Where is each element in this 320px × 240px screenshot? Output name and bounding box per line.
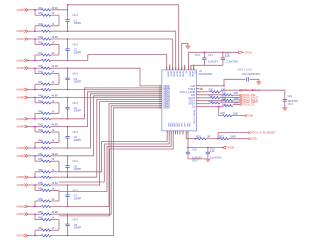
svg-text:R49: R49 [38, 140, 43, 143]
svg-text:R45: R45 [38, 110, 43, 113]
svg-text:R53: R53 [38, 169, 43, 172]
svg-text:9: 9 [172, 67, 173, 69]
svg-text:R60: R60 [38, 217, 43, 220]
svg-text:100PF: 100PF [74, 21, 82, 25]
svg-text:1K: 1K [51, 227, 54, 230]
svg-text:1K: 1K [51, 169, 54, 172]
svg-text:9: 9 [184, 67, 185, 69]
svg-text:GND: GND [171, 123, 173, 128]
svg-text:1K: 1K [51, 198, 54, 201]
svg-text:0603: 0603 [72, 72, 78, 76]
svg-text:AIN1P: AIN1P [16, 37, 24, 41]
svg-text:0603 0.22uF: 0603 0.22uF [237, 68, 252, 72]
svg-text:100PF: 100PF [74, 138, 82, 142]
svg-text:AIN7P: AIN7P [176, 71, 179, 77]
svg-text:R40: R40 [38, 71, 43, 74]
svg-text:49.9R: 49.9R [51, 211, 58, 214]
svg-text:R27: R27 [221, 112, 226, 115]
svg-text:1K: 1K [51, 140, 54, 143]
svg-text:AIN7P: AIN7P [16, 212, 24, 216]
svg-text:100PF: 100PF [74, 196, 82, 200]
svg-text:1K: 1K [51, 217, 54, 220]
svg-text:0603: 0603 [72, 218, 78, 222]
svg-text:R31: R31 [38, 7, 43, 10]
svg-text:GND: GND [173, 123, 175, 128]
svg-text:9: 9 [175, 67, 176, 69]
svg-text:100PF: 100PF [74, 109, 82, 113]
svg-text:R35: R35 [38, 36, 43, 39]
svg-text:1K: 1K [51, 187, 54, 190]
svg-text:GND: GND [251, 137, 257, 141]
svg-text:49.9R: 49.9R [51, 36, 58, 39]
svg-text:14: 14 [159, 106, 161, 108]
svg-text:AIN5N: AIN5N [16, 175, 24, 179]
svg-text:R52: R52 [38, 158, 43, 161]
svg-text:FPGA_CLK_IN: FPGA_CLK_IN [243, 88, 260, 92]
svg-text:9: 9 [193, 67, 194, 69]
svg-text:AIN5P: AIN5P [16, 154, 24, 158]
svg-text:AIN7N: AIN7N [16, 234, 24, 238]
svg-text:R61: R61 [38, 227, 43, 230]
svg-text:GND: GND [178, 123, 180, 128]
svg-text:49.9R: 49.9R [51, 153, 58, 156]
svg-text:R57: R57 [38, 198, 43, 201]
svg-text:R23: R23 [209, 95, 214, 98]
svg-text:9: 9 [169, 67, 170, 69]
svg-text:1K: 1K [51, 110, 54, 113]
svg-text:9: 9 [181, 67, 182, 69]
svg-text:GND: GND [180, 123, 182, 128]
svg-text:GND: GND [183, 123, 185, 128]
svg-text:0603: 0603 [72, 159, 78, 163]
svg-text:R43: R43 [38, 94, 43, 97]
svg-text:0603: 0603 [72, 42, 78, 46]
svg-text:1K: 1K [51, 129, 54, 132]
svg-text:R48: R48 [38, 129, 43, 132]
svg-text:33R: 33R [221, 99, 226, 102]
svg-text:R37: R37 [219, 134, 224, 138]
svg-text:100PF: 100PF [74, 80, 82, 84]
svg-text:GND: GND [188, 123, 190, 128]
svg-text:9: 9 [166, 67, 167, 69]
svg-text:R36: R36 [38, 41, 43, 44]
svg-text:R37: R37 [38, 52, 43, 55]
svg-text:33R: 33R [234, 97, 239, 100]
svg-text:1K: 1K [51, 23, 54, 26]
svg-text:AGND: AGND [182, 71, 185, 77]
svg-text:1K: 1K [51, 71, 54, 74]
svg-text:AIN4P: AIN4P [16, 125, 24, 129]
svg-text:R55: R55 [38, 182, 43, 185]
svg-text:R39: R39 [38, 65, 43, 68]
svg-text:0.1uF/25V: 0.1uF/25V [226, 59, 238, 63]
svg-text:0.1uF/25V: 0.1uF/25V [210, 155, 222, 159]
svg-text:0R: 0R [207, 134, 210, 138]
svg-text:CS: CS [192, 106, 196, 109]
svg-text:0603: 0603 [288, 103, 294, 106]
svg-text:AIN0P: AIN0P [16, 8, 24, 12]
svg-text:1K: 1K [51, 41, 54, 44]
svg-text:FPGA_SYNC/RESET: FPGA_SYNC/RESET [251, 131, 276, 135]
svg-text:R26: R26 [222, 104, 227, 107]
svg-text:C16: C16 [192, 148, 197, 152]
svg-text:GND: GND [169, 123, 171, 128]
svg-text:R25: R25 [209, 101, 214, 104]
svg-text:100R: 100R [230, 134, 236, 138]
svg-text:1K: 1K [51, 158, 54, 161]
svg-text:100PF: 100PF [74, 167, 82, 171]
svg-text:49.9R: 49.9R [51, 94, 58, 97]
svg-text:R56: R56 [38, 187, 43, 190]
svg-text:ADS131M08: ADS131M08 [199, 73, 213, 76]
svg-text:1K: 1K [51, 81, 54, 84]
svg-text:AIN2P: AIN2P [16, 66, 24, 70]
svg-text:R32: R32 [38, 12, 43, 15]
svg-text:FPGA_CS: FPGA_CS [243, 103, 255, 107]
svg-text:U2: U2 [199, 71, 203, 73]
svg-text:AIN6N: AIN6N [173, 71, 176, 77]
svg-text:R59: R59 [38, 211, 43, 214]
svg-text:0603: 0603 [72, 130, 78, 134]
svg-text:GND: GND [175, 123, 177, 128]
svg-text:1K: 1K [51, 100, 54, 103]
svg-text:C21: C21 [288, 95, 293, 98]
svg-text:33R: 33R [234, 102, 239, 105]
svg-text:AIN6N: AIN6N [16, 204, 24, 208]
svg-text:R47: R47 [38, 124, 43, 127]
svg-text:C20 220NF/25V: C20 220NF/25V [242, 72, 261, 76]
svg-text:RESET/SYNC: RESET/SYNC [193, 110, 195, 124]
svg-text:AIN6P: AIN6P [16, 183, 24, 187]
svg-text:1K: 1K [51, 52, 54, 55]
svg-text:0603: 0603 [195, 53, 201, 57]
svg-text:49.9R: 49.9R [51, 65, 58, 68]
svg-text:AIN3N: AIN3N [16, 117, 24, 121]
svg-text:9: 9 [178, 67, 179, 69]
svg-text:R41: R41 [38, 81, 43, 84]
svg-text:AIN7N: AIN7N [179, 71, 182, 77]
svg-text:1uF/25V: 1uF/25V [208, 59, 218, 63]
svg-text:49.9R: 49.9R [51, 7, 58, 10]
svg-text:DVDD: DVDD [227, 146, 235, 150]
svg-text:1K: 1K [51, 12, 54, 15]
svg-text:0603: 0603 [192, 158, 198, 162]
svg-text:AIN3P: AIN3P [16, 95, 24, 99]
svg-text:GND: GND [248, 114, 254, 118]
svg-text:100K: 100K [232, 112, 238, 115]
svg-text:0603: 0603 [72, 101, 78, 105]
svg-text:AIN1N: AIN1N [16, 58, 24, 62]
svg-text:GND: GND [167, 123, 169, 128]
svg-text:+3V3A: +3V3A [244, 50, 253, 54]
svg-text:0603: 0603 [72, 13, 78, 17]
svg-text:GND: GND [186, 123, 188, 128]
svg-text:100PF: 100PF [74, 226, 82, 230]
svg-text:100PF: 100PF [74, 50, 82, 54]
svg-text:C18: C18 [225, 54, 230, 58]
svg-text:AIN2N: AIN2N [16, 88, 24, 92]
svg-text:49.9R: 49.9R [51, 124, 58, 127]
svg-text:AIN6P: AIN6P [167, 71, 170, 77]
svg-text:R36: R36 [196, 134, 201, 138]
svg-text:R33: R33 [38, 23, 43, 26]
svg-text:R20: R20 [209, 88, 214, 91]
svg-text:R51: R51 [38, 153, 43, 156]
svg-text:33R: 33R [234, 92, 239, 95]
svg-text:AVDD: AVDD [170, 71, 173, 77]
svg-text:C17: C17 [208, 53, 213, 57]
svg-text:49.9R: 49.9R [51, 182, 58, 185]
svg-text:R44: R44 [38, 100, 43, 103]
svg-text:AIN4N: AIN4N [16, 146, 24, 150]
svg-text:AIN0N: AIN0N [16, 29, 24, 33]
svg-text:C19: C19 [210, 150, 215, 153]
svg-text:AIN5N: AIN5N [163, 107, 170, 110]
svg-text:AGND: AGND [191, 71, 194, 77]
